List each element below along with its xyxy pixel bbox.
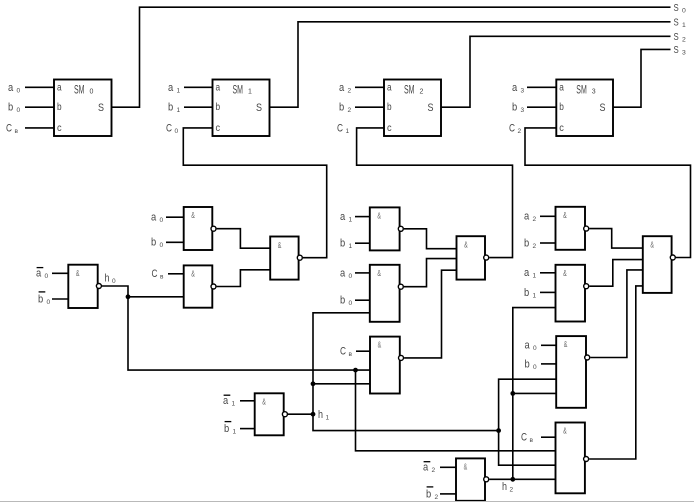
- wire B2 output to combiner2: [404, 259, 457, 287]
- NAND combiner U1 producing C0: [270, 237, 302, 280]
- svg-text:C: C: [152, 268, 158, 280]
- input a1 of B3: [524, 267, 556, 280]
- svg-text:h: h: [502, 481, 507, 493]
- svg-text:S: S: [674, 31, 679, 43]
- svg-text:2: 2: [518, 128, 522, 135]
- NAND gate B1 (Cv.h0): [184, 265, 216, 307]
- svg-text:b: b: [8, 102, 13, 114]
- svg-text:1: 1: [248, 89, 252, 96]
- svg-text:0: 0: [160, 217, 164, 224]
- NAND gate B2 (a0.b0.h1): [370, 265, 404, 322]
- node label h0: [105, 273, 117, 286]
- input b of SM3: [512, 102, 556, 115]
- svg-text:a: a: [423, 462, 429, 474]
- wire sum output net S1: [270, 22, 671, 107]
- wire B3 output to combiner3: [589, 260, 643, 287]
- input Cv of D3: [521, 432, 556, 445]
- svg-text:&: &: [564, 339, 568, 349]
- node label h1: [318, 409, 330, 422]
- wire A3 output to combiner3: [589, 229, 643, 249]
- wire C3 output to combiner3: [590, 270, 643, 358]
- svg-text:S: S: [674, 17, 679, 29]
- svg-text:b: b: [340, 295, 345, 307]
- svg-text:2: 2: [682, 37, 686, 44]
- svg-text:b: b: [57, 102, 62, 113]
- wire B1 output to combiner1: [217, 270, 271, 287]
- svg-text:2: 2: [348, 107, 352, 114]
- svg-text:c: c: [387, 123, 392, 134]
- input a of SM2: [339, 82, 384, 95]
- svg-text:2: 2: [348, 87, 352, 94]
- NAND gate C2 (Cv.h0.h1): [370, 337, 404, 394]
- svg-text:0: 0: [349, 300, 353, 307]
- svg-text:SM: SM: [404, 85, 415, 97]
- svg-text:0: 0: [160, 242, 164, 249]
- svg-text:&: &: [191, 210, 195, 220]
- svg-text:&: &: [377, 210, 381, 220]
- svg-text:1: 1: [232, 401, 236, 408]
- svg-text:&: &: [278, 240, 282, 250]
- svg-text:a: a: [524, 211, 530, 223]
- svg-text:1: 1: [533, 292, 537, 299]
- half-adder sum block SM1: [213, 80, 270, 137]
- svg-text:1: 1: [177, 107, 181, 114]
- wire carry net C0 (combiner1 output to SM1 c input): [183, 128, 326, 258]
- svg-text:0: 0: [90, 89, 94, 96]
- NAND gate H1 (nota1.notb1) producing h1: [255, 393, 288, 435]
- svg-text:1: 1: [349, 243, 353, 250]
- svg-text:в: в: [160, 274, 164, 281]
- svg-text:1: 1: [349, 217, 353, 224]
- svg-text:0: 0: [175, 128, 179, 135]
- svg-text:b: b: [224, 423, 229, 435]
- input not-b0 of H0: [38, 292, 68, 306]
- NAND gate A3 (a2.b2): [556, 207, 589, 250]
- svg-text:SM: SM: [576, 85, 587, 97]
- input not-b2 of H2: [426, 487, 456, 501]
- wire carry net C1 (combiner2 output to SM2 c input): [357, 128, 513, 258]
- svg-text:a: a: [8, 82, 14, 94]
- svg-text:S: S: [674, 44, 679, 56]
- input b1 of A2: [340, 238, 370, 251]
- svg-text:C: C: [509, 122, 515, 134]
- input b2 of A3: [524, 237, 556, 250]
- svg-text:в: в: [15, 128, 19, 135]
- wire h1 output to junction: [288, 413, 313, 415]
- junction h1 to C2 tap: [311, 381, 370, 386]
- wire carry net C2 (combiner3 output to SM3 c input): [525, 128, 691, 258]
- svg-text:1: 1: [682, 22, 686, 29]
- wire carry-in Cv to SM0: [25, 127, 54, 129]
- wire sum output net S0: [112, 7, 671, 107]
- svg-text:&: &: [650, 240, 654, 250]
- svg-text:a: a: [512, 82, 518, 94]
- NAND gate D3 (Cv.h0.h1.h2): [556, 423, 589, 494]
- half-adder sum block SM2: [384, 80, 441, 137]
- NAND gate A1 (a0.b0): [184, 207, 216, 250]
- NAND gate H0 (nota0.notb0) producing h0: [68, 265, 101, 308]
- svg-text:&: &: [378, 340, 382, 350]
- svg-text:C: C: [337, 122, 343, 134]
- svg-text:SM: SM: [74, 85, 85, 97]
- input a0 of B2: [340, 267, 370, 280]
- svg-text:S: S: [98, 102, 104, 114]
- svg-text:b: b: [524, 237, 529, 249]
- input Cv of B1: [152, 268, 184, 281]
- svg-text:b: b: [525, 358, 530, 370]
- svg-text:C: C: [340, 346, 346, 358]
- carry-in label C1 of SM2: [337, 122, 350, 135]
- wire sum output net S3: [613, 49, 671, 107]
- svg-text:a: a: [216, 82, 221, 93]
- input b0 of C3: [525, 358, 557, 371]
- input Cv of C2: [340, 346, 370, 359]
- svg-text:2: 2: [435, 494, 439, 501]
- junction h2 main: [510, 477, 515, 482]
- input not-a2 of H2: [423, 462, 456, 475]
- input a2 of A3: [524, 211, 556, 224]
- wire D3 output to combiner3: [589, 286, 643, 459]
- svg-text:h: h: [105, 273, 110, 285]
- junction h0 to B1: [126, 294, 184, 299]
- svg-text:a: a: [151, 212, 157, 224]
- svg-text:S: S: [256, 102, 262, 114]
- svg-text:C: C: [521, 432, 527, 444]
- wire C2 output to combiner2: [404, 270, 456, 358]
- input not-b1 of H1: [224, 422, 255, 436]
- svg-text:3: 3: [592, 89, 596, 96]
- svg-text:0: 0: [682, 7, 686, 14]
- carry-in label C2 of SM3: [509, 122, 522, 135]
- carry-in label Cв of SM0: [6, 122, 19, 135]
- svg-text:0: 0: [45, 273, 49, 280]
- input b of SM2: [339, 102, 384, 115]
- junction h1 main: [311, 412, 316, 417]
- svg-text:C: C: [6, 122, 12, 134]
- input not-a0 of H0: [36, 268, 68, 281]
- svg-text:0: 0: [17, 87, 21, 94]
- NAND gate A2 (a1.b1): [370, 207, 404, 250]
- svg-text:a: a: [340, 211, 346, 223]
- svg-text:2: 2: [432, 467, 436, 474]
- svg-text:b: b: [524, 287, 529, 299]
- svg-text:a: a: [168, 82, 174, 94]
- NAND combiner U3 producing C2: [643, 236, 676, 293]
- svg-text:3: 3: [682, 50, 686, 57]
- svg-text:a: a: [340, 267, 346, 279]
- svg-text:1: 1: [346, 128, 350, 135]
- svg-text:S: S: [428, 102, 434, 114]
- svg-text:a: a: [559, 82, 564, 93]
- svg-text:S: S: [600, 102, 606, 114]
- svg-text:1: 1: [177, 87, 181, 94]
- svg-text:0: 0: [47, 299, 51, 306]
- NAND combiner U2 producing C1: [457, 236, 489, 279]
- svg-text:c: c: [216, 123, 221, 134]
- input b0 of A1: [151, 237, 184, 250]
- svg-text:&: &: [464, 461, 468, 471]
- svg-text:&: &: [377, 268, 381, 278]
- svg-text:2: 2: [533, 216, 537, 223]
- input b1 of B3: [524, 287, 556, 300]
- wire A1 output to combiner1: [217, 229, 271, 249]
- svg-text:0: 0: [17, 107, 21, 114]
- svg-text:c: c: [57, 123, 62, 134]
- svg-text:b: b: [512, 102, 517, 114]
- svg-text:b: b: [216, 102, 221, 113]
- svg-text:b: b: [38, 293, 43, 305]
- svg-text:3: 3: [521, 87, 525, 94]
- svg-text:b: b: [151, 237, 156, 249]
- input a0 of C3: [525, 340, 557, 353]
- svg-text:a: a: [57, 82, 62, 93]
- wire h0 net trunk: [102, 286, 370, 370]
- input a of SM3: [512, 82, 556, 95]
- svg-text:SM: SM: [233, 85, 244, 97]
- junction h2 to C3 tap: [510, 391, 556, 396]
- scan artifact line at bottom: [0, 501, 694, 503]
- svg-text:&: &: [76, 268, 80, 278]
- svg-text:&: &: [563, 210, 567, 220]
- input b of SM0: [8, 102, 54, 115]
- input b0 of B2: [340, 295, 370, 308]
- svg-text:&: &: [563, 268, 567, 278]
- svg-text:0: 0: [349, 273, 353, 280]
- svg-text:1: 1: [533, 273, 537, 280]
- NAND gate B3 (a1.b1.h2): [556, 265, 589, 322]
- input not-a1 of H1: [223, 395, 255, 408]
- junction h0 to D3 branch: [353, 368, 555, 451]
- svg-text:a: a: [524, 267, 530, 279]
- input a0 of A1: [151, 212, 184, 225]
- svg-text:S: S: [674, 2, 679, 14]
- svg-text:a: a: [223, 395, 229, 407]
- node label S0: [674, 2, 687, 14]
- svg-text:a: a: [339, 82, 345, 94]
- input b of SM1: [168, 102, 213, 115]
- wire A2 output to combiner2: [404, 229, 457, 249]
- svg-text:1: 1: [326, 415, 330, 422]
- svg-text:a: a: [525, 340, 531, 352]
- svg-text:2: 2: [510, 487, 514, 494]
- svg-text:&: &: [262, 396, 266, 406]
- wire h2 net trunk up to B3: [513, 308, 556, 480]
- NAND gate H2 (nota2.notb2) producing h2: [456, 458, 489, 500]
- svg-text:0: 0: [112, 278, 116, 285]
- half-adder sum block SM3: [556, 80, 613, 137]
- svg-text:в: в: [349, 351, 353, 358]
- svg-text:0: 0: [533, 364, 537, 371]
- svg-text:0: 0: [533, 345, 537, 352]
- wire h1 net trunk up to B2 and right: [313, 313, 499, 431]
- svg-text:a: a: [36, 268, 42, 280]
- svg-text:c: c: [559, 123, 564, 134]
- node label h2: [502, 481, 514, 494]
- node label S2: [674, 31, 687, 43]
- svg-text:b: b: [340, 238, 345, 250]
- svg-text:b: b: [387, 102, 392, 113]
- wire sum output net S2: [441, 36, 671, 107]
- svg-text:&: &: [464, 240, 468, 250]
- svg-text:b: b: [168, 102, 173, 114]
- node label S1: [674, 17, 687, 29]
- svg-text:b: b: [426, 488, 431, 500]
- carry-in label C0 of SM1: [166, 122, 179, 135]
- svg-text:a: a: [387, 82, 392, 93]
- svg-text:3: 3: [521, 107, 525, 114]
- svg-text:h: h: [318, 409, 323, 421]
- input a of SM0: [8, 82, 54, 95]
- junction h1 right branch to C3 and D3: [496, 379, 556, 465]
- svg-text:2: 2: [420, 89, 424, 96]
- input a1 of A2: [340, 211, 370, 224]
- svg-text:C: C: [166, 122, 172, 134]
- svg-text:&: &: [563, 426, 567, 436]
- node label S3: [674, 44, 687, 56]
- input a of SM1: [168, 82, 213, 95]
- NAND gate C3 (a0.b0.h1.h2): [556, 336, 590, 408]
- svg-text:b: b: [559, 102, 564, 113]
- svg-text:2: 2: [533, 243, 537, 250]
- svg-text:1: 1: [233, 429, 237, 436]
- half-adder sum block SM0: [54, 80, 112, 137]
- wire h2 output to junction and D3: [489, 478, 555, 480]
- svg-text:&: &: [191, 268, 195, 278]
- svg-text:в: в: [530, 437, 534, 444]
- svg-text:b: b: [339, 102, 344, 114]
